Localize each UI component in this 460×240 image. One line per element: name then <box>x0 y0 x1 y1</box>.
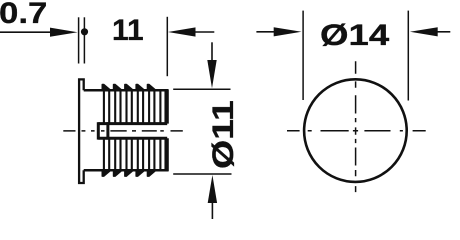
thread flank lines bottom half <box>104 138 166 169</box>
dimension Ø14 right leader <box>435 31 450 33</box>
body major line bottom <box>84 169 168 172</box>
expansion slot inner divider <box>106 122 109 139</box>
dimension line Ø11 bottom arrow <box>208 175 217 203</box>
dimension 11 label <box>112 16 144 46</box>
vertical centerline front view <box>355 61 357 192</box>
thread crest teeth top <box>102 85 156 91</box>
centerline left view <box>63 130 183 132</box>
horizontal centerline front view <box>287 130 426 132</box>
dimension Ø14 label <box>320 21 389 51</box>
expansion slot left end cap <box>97 122 100 139</box>
dimension Ø14 right arrowhead <box>410 27 438 36</box>
dimension 11 leader line <box>193 31 214 33</box>
flange outline <box>79 79 84 183</box>
expansion slot bottom edge <box>98 137 167 140</box>
dimension dot terminator <box>81 28 88 35</box>
dimension Ø14 left arrowhead <box>274 27 302 36</box>
thread flank lines top half <box>104 91 166 124</box>
dimension Ø14 left leader <box>256 31 276 33</box>
dimension 11 arrowhead <box>168 27 196 36</box>
extension line Ø14 left <box>302 11 304 100</box>
dimension 0.7 label <box>0 0 47 29</box>
body major line top <box>84 89 168 92</box>
extension line Ø11 bottom <box>173 173 231 175</box>
expansion slot top edge <box>98 122 167 125</box>
front view circle (flange Ø14) <box>304 79 407 182</box>
extension line left (flange front face) <box>78 17 80 63</box>
extension line Ø11 top <box>173 88 230 90</box>
extension line right of 0.7 / left of 11 <box>83 17 85 63</box>
dimension Ø11 label (rotated) <box>209 100 239 169</box>
body end face <box>166 89 169 171</box>
dimension line Ø11 top arrow <box>211 42 213 62</box>
dimension 0.7 arrowhead <box>50 28 78 37</box>
thread crest teeth bottom <box>102 170 156 176</box>
extension line right of 11 <box>166 17 168 76</box>
dimension 0.7 leader line <box>0 31 58 33</box>
extension line Ø14 right <box>407 11 409 101</box>
